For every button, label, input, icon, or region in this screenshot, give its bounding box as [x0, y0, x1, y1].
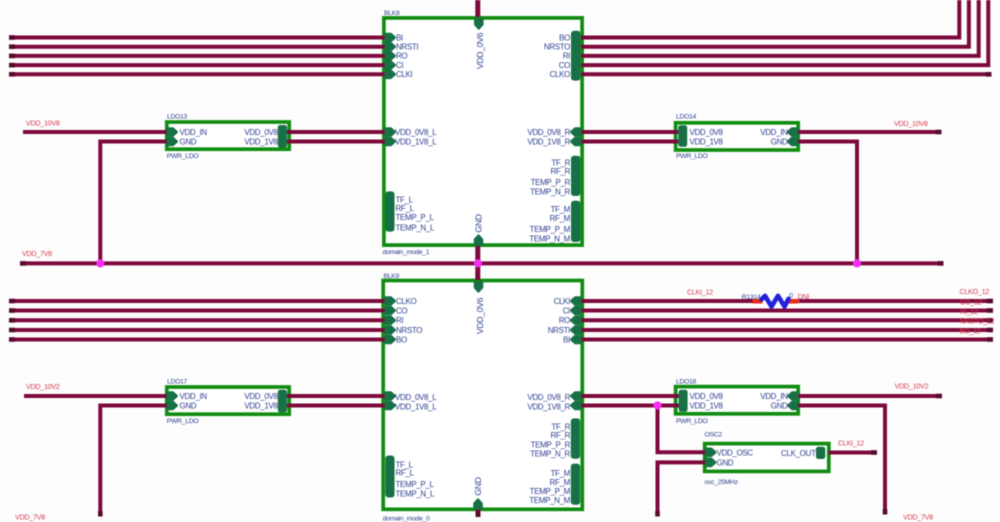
- svg-text:CLKO_12: CLKO_12: [960, 287, 990, 296]
- svg-text:VDD_0V8_L: VDD_0V8_L: [395, 393, 437, 402]
- svg-text:domain_mode_0: domain_mode_0: [383, 516, 430, 522]
- svg-text:VDD_1V8: VDD_1V8: [244, 401, 278, 410]
- svg-text:TEMP_P_L: TEMP_P_L: [396, 213, 435, 222]
- svg-text:CLK_OUT: CLK_OUT: [781, 449, 816, 458]
- svg-text:DNI: DNI: [798, 292, 810, 301]
- svg-text:BLK9: BLK9: [384, 273, 400, 280]
- svg-text:VDD_OSC: VDD_OSC: [717, 448, 754, 457]
- svg-text:RF_M: RF_M: [550, 478, 571, 487]
- svg-text:VDD_7V8: VDD_7V8: [22, 249, 52, 258]
- svg-text:VDD_10V2: VDD_10V2: [26, 382, 60, 391]
- svg-text:VDD_0V8: VDD_0V8: [244, 392, 278, 401]
- svg-text:RF_R: RF_R: [551, 167, 571, 176]
- svg-text:VDD_0V8: VDD_0V8: [690, 128, 724, 137]
- svg-text:GND: GND: [771, 137, 788, 146]
- svg-text:TF_M: TF_M: [551, 469, 571, 478]
- svg-text:TEMP_P_R: TEMP_P_R: [531, 178, 571, 187]
- svg-text:domain_mode_1: domain_mode_1: [383, 249, 430, 256]
- svg-text:GND: GND: [180, 137, 197, 146]
- svg-text:CLKI: CLKI: [396, 70, 413, 79]
- svg-text:CLKI_12: CLKI_12: [687, 287, 713, 296]
- svg-text:CI: CI: [563, 306, 570, 315]
- svg-text:LDO13: LDO13: [167, 113, 188, 120]
- svg-text:TEMP_N_R: TEMP_N_R: [530, 187, 570, 196]
- svg-text:osc_25MHz: osc_25MHz: [705, 479, 739, 486]
- svg-text:CLKO: CLKO: [396, 297, 417, 306]
- svg-text:CLKI: CLKI: [554, 297, 571, 306]
- svg-text:VDD_10V2: VDD_10V2: [895, 382, 929, 391]
- svg-text:R1314: R1314: [742, 294, 761, 301]
- svg-text:TEMP_N_M: TEMP_N_M: [529, 496, 570, 505]
- svg-text:LDO14: LDO14: [676, 113, 697, 120]
- svg-text:TEMP_N_L: TEMP_N_L: [396, 489, 435, 498]
- svg-text:CI: CI: [396, 61, 403, 70]
- svg-text:PWR_LDO: PWR_LDO: [167, 418, 199, 425]
- svg-text:RO: RO: [559, 316, 570, 325]
- svg-text:BI: BI: [396, 33, 403, 42]
- svg-text:RI: RI: [563, 52, 570, 61]
- svg-text:GND: GND: [474, 214, 484, 232]
- svg-text:BI: BI: [563, 335, 570, 344]
- svg-text:TEMP_N_L: TEMP_N_L: [396, 223, 435, 232]
- svg-text:VDD_7V8: VDD_7V8: [903, 513, 933, 522]
- svg-text:RF_L: RF_L: [396, 468, 415, 477]
- svg-text:GND: GND: [717, 458, 734, 467]
- svg-text:CLKO: CLKO: [550, 70, 571, 79]
- svg-text:VDD_0V8: VDD_0V8: [244, 128, 278, 137]
- svg-text:CO_12: CO_12: [960, 297, 982, 306]
- svg-text:NRSTI: NRSTI: [548, 326, 570, 335]
- svg-text:PWR_LDO: PWR_LDO: [676, 153, 708, 160]
- svg-text:GND: GND: [180, 401, 197, 410]
- svg-text:VDD_IN: VDD_IN: [180, 128, 208, 137]
- svg-text:LDO18: LDO18: [676, 378, 697, 385]
- svg-text:VDD_IN: VDD_IN: [760, 128, 788, 137]
- svg-text:PWR_LDO: PWR_LDO: [167, 153, 199, 160]
- svg-text:NRSTI: NRSTI: [396, 43, 418, 52]
- svg-text:TEMP_P_R: TEMP_P_R: [531, 441, 571, 450]
- svg-text:TEMP_N_R: TEMP_N_R: [530, 449, 570, 458]
- svg-text:CO: CO: [396, 306, 407, 315]
- svg-text:BLK8: BLK8: [384, 10, 400, 17]
- svg-text:BO: BO: [396, 335, 407, 344]
- svg-text:RI_12: RI_12: [960, 307, 978, 316]
- svg-text:RO: RO: [396, 52, 407, 61]
- svg-text:RF_M: RF_M: [550, 214, 571, 223]
- svg-text:RF_R: RF_R: [551, 431, 571, 440]
- svg-text:VDD_IN: VDD_IN: [180, 392, 208, 401]
- svg-text:GND: GND: [473, 477, 483, 495]
- svg-text:VDD_1V8: VDD_1V8: [690, 401, 724, 410]
- svg-text:NRSTO: NRSTO: [396, 326, 422, 335]
- svg-text:VDD_IN: VDD_IN: [760, 392, 788, 401]
- svg-text:GND: GND: [771, 401, 788, 410]
- svg-text:VDD_0V8_R: VDD_0V8_R: [527, 128, 570, 137]
- svg-text:CO: CO: [559, 61, 570, 70]
- svg-text:PWR_LDO: PWR_LDO: [676, 418, 708, 425]
- svg-text:VDD_0V8: VDD_0V8: [690, 392, 724, 401]
- svg-text:VDD_1V8_R: VDD_1V8_R: [527, 402, 570, 411]
- svg-text:VDD_1V8: VDD_1V8: [244, 137, 278, 146]
- svg-text:NRSTO_12: NRSTO_12: [960, 317, 995, 326]
- svg-text:CLKI_12: CLKI_12: [838, 439, 864, 448]
- svg-text:OSC2: OSC2: [705, 432, 723, 439]
- svg-text:TF_M: TF_M: [551, 205, 571, 214]
- svg-text:TEMP_P_M: TEMP_P_M: [530, 225, 571, 234]
- svg-text:VDD_1V8_L: VDD_1V8_L: [395, 137, 437, 146]
- svg-text:RF_L: RF_L: [396, 204, 415, 213]
- svg-text:TEMP_P_L: TEMP_P_L: [396, 480, 435, 489]
- svg-text:VDD_0V6: VDD_0V6: [475, 297, 485, 334]
- svg-text:VDD_10V8: VDD_10V8: [26, 118, 60, 127]
- svg-text:TEMP_N_M: TEMP_N_M: [529, 234, 570, 243]
- svg-text:LDO17: LDO17: [167, 378, 188, 385]
- svg-text:VDD_1V8: VDD_1V8: [690, 137, 724, 146]
- svg-text:VDD_0V8_L: VDD_0V8_L: [395, 128, 437, 137]
- svg-text:BO_12: BO_12: [960, 326, 981, 335]
- svg-text:VDD_7V8: VDD_7V8: [15, 513, 45, 522]
- svg-text:VDD_10V8: VDD_10V8: [894, 119, 928, 128]
- svg-text:VDD_0V8_R: VDD_0V8_R: [527, 393, 570, 402]
- svg-text:VDD_1V8_R: VDD_1V8_R: [527, 137, 570, 146]
- svg-text:TEMP_P_M: TEMP_P_M: [530, 487, 571, 496]
- svg-text:BO: BO: [559, 33, 570, 42]
- svg-text:0: 0: [789, 293, 793, 300]
- svg-text:VDD_0V6: VDD_0V6: [475, 32, 485, 69]
- svg-text:NRSTO: NRSTO: [544, 43, 570, 52]
- svg-text:RI: RI: [396, 316, 403, 325]
- svg-text:VDD_1V8_L: VDD_1V8_L: [395, 402, 437, 411]
